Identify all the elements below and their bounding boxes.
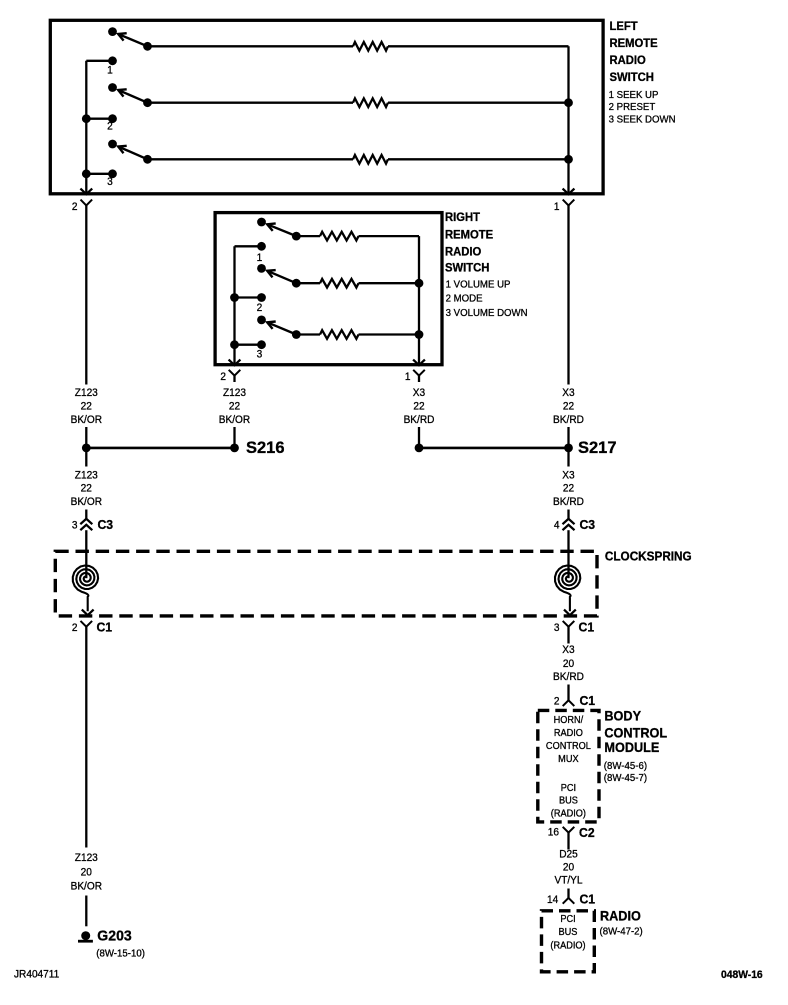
svg-text:PCI: PCI [561, 783, 576, 794]
svg-text:2: 2 [220, 371, 226, 383]
svg-text:22: 22 [81, 400, 92, 412]
wire: column A to splice [85, 427, 87, 448]
splice S216 [82, 439, 285, 457]
label: LEFT REMOTE RADIO SWITCH [609, 20, 657, 84]
wire: left switch output bus (right side) [563, 46, 575, 194]
wire: column D above C3 [567, 510, 569, 520]
svg-text:1: 1 [107, 64, 113, 76]
connector C3 pin 4 (in-line) [554, 518, 595, 532]
svg-text:PCI: PCI [560, 914, 575, 925]
svg-text:22: 22 [563, 400, 574, 412]
svg-text:S217: S217 [578, 439, 617, 457]
resistor R3 [148, 155, 569, 164]
svg-text:3: 3 [554, 622, 560, 634]
svg-text:20: 20 [563, 861, 574, 873]
svg-text:(RADIO): (RADIO) [550, 940, 585, 951]
svg-text:MUX: MUX [558, 753, 579, 764]
svg-text:Z123: Z123 [75, 387, 98, 399]
wire: to radio connector [567, 889, 569, 898]
box: CLOCKSPRING (dashed) [55, 551, 597, 616]
label: RIGHT REMOTE RADIO SWITCH [445, 211, 493, 275]
box: RIGHT REMOTE RADIO SWITCH [215, 213, 442, 365]
svg-text:BK/RD: BK/RD [404, 414, 435, 426]
wire label X3 22 BK/RD [553, 387, 584, 426]
svg-text:BK/RD: BK/RD [553, 496, 584, 508]
node: terminal 3 of right switch [230, 340, 266, 360]
wire: column D from pin 1 down [567, 205, 569, 384]
svg-text:2: 2 [107, 120, 113, 132]
svg-text:4: 4 [554, 519, 560, 531]
svg-text:VT/YL: VT/YL [554, 874, 582, 886]
junction dots on left switch output bus [564, 98, 573, 163]
resistor R4 [296, 232, 419, 241]
svg-text:2: 2 [257, 302, 263, 314]
wire: column A above C3 [85, 510, 87, 520]
svg-text:22: 22 [413, 400, 424, 412]
connector Y: right switch pin 2 [220, 370, 240, 384]
svg-text:Z123: Z123 [223, 387, 246, 399]
svg-text:22: 22 [81, 482, 92, 494]
svg-text:RADIO: RADIO [445, 245, 481, 258]
svg-text:C1: C1 [96, 620, 112, 634]
svg-text:1 VOLUME UP: 1 VOLUME UP [446, 279, 511, 290]
wire: column A to G203 [85, 896, 87, 927]
connector Y: left switch pin 2 [72, 200, 92, 213]
junction dots on right switch output bus [415, 279, 424, 339]
switch SW5 (mode) [257, 264, 301, 288]
svg-text:048W-16: 048W-16 [721, 969, 763, 981]
wire: column B to splice [233, 427, 235, 448]
svg-text:Z123: Z123 [75, 469, 98, 481]
connector Y: clockspring C1 pin 3 [554, 620, 594, 634]
svg-text:3 VOLUME DOWN: 3 VOLUME DOWN [446, 307, 528, 318]
clockspring coil (right) [555, 566, 580, 616]
svg-text:HORN/: HORN/ [554, 715, 584, 726]
svg-text:C1: C1 [580, 694, 596, 708]
svg-text:1: 1 [554, 200, 560, 212]
node: terminal 1 of left switch [86, 56, 117, 76]
svg-text:REMOTE: REMOTE [445, 228, 493, 241]
svg-text:BUS: BUS [559, 927, 578, 938]
svg-text:BK/OR: BK/OR [71, 880, 103, 892]
connector Y: BCM C2 pin 16 [548, 826, 595, 840]
svg-text:20: 20 [563, 657, 574, 669]
svg-text:X3: X3 [413, 387, 425, 399]
svg-text:2: 2 [554, 695, 560, 707]
svg-text:C1: C1 [579, 620, 595, 634]
label inside BCM: HORN/RADIO CONTROL MUX [546, 715, 592, 765]
connector C3 pin 3 (in-line) [72, 518, 113, 532]
svg-text:22: 22 [229, 400, 240, 412]
connector Y: clockspring C1 pin 2 [72, 620, 112, 634]
wire label Z123 22 BK/OR [71, 387, 103, 426]
svg-text:CLOCKSPRING: CLOCKSPRING [605, 549, 692, 563]
wire: column B stub [233, 376, 235, 382]
box: RADIO (dashed) [542, 911, 595, 972]
legend: 1 SEEK UP / 2 PRESET / 3 SEEK DOWN [609, 90, 676, 126]
svg-text:SWITCH: SWITCH [445, 261, 489, 274]
box: BODY CONTROL MODULE (dashed) [538, 710, 599, 822]
switch SW6 (volume down) [257, 316, 301, 339]
svg-text:CONTROL: CONTROL [604, 725, 667, 740]
switch SW1 (seek up) [108, 27, 152, 50]
svg-text:JR404711: JR404711 [14, 968, 59, 980]
connector C1 pin 2 at BCM (inverted Y) [554, 694, 595, 708]
wire label X3 22 BK/RD [553, 469, 584, 508]
resistor R2 [148, 98, 569, 107]
svg-text:C3: C3 [580, 518, 596, 532]
svg-text:C2: C2 [579, 826, 595, 840]
label: RADIO (8W-47-2) [600, 908, 643, 938]
svg-text:LEFT: LEFT [609, 20, 637, 33]
wire label X3 22 BK/RD [404, 387, 435, 426]
resistor R1 [148, 42, 569, 51]
svg-text:MODULE: MODULE [604, 740, 659, 755]
ground G203 [78, 928, 145, 959]
svg-text:G203: G203 [97, 928, 131, 944]
svg-text:RADIO: RADIO [609, 54, 645, 67]
wire label Z123 20 BK/OR [71, 852, 103, 893]
label: (8W-45-6) (8W-45-7) [604, 761, 647, 784]
svg-text:X3: X3 [562, 644, 574, 656]
svg-text:2: 2 [72, 200, 78, 212]
svg-text:14: 14 [547, 894, 558, 906]
resistor R6 [296, 330, 419, 339]
svg-text:16: 16 [548, 826, 559, 838]
svg-text:BK/RD: BK/RD [553, 414, 584, 426]
svg-text:3: 3 [72, 519, 78, 531]
svg-text:1: 1 [257, 252, 263, 264]
wire: column D below clockspring [567, 627, 569, 644]
svg-text:X3: X3 [562, 387, 574, 399]
svg-text:(RADIO): (RADIO) [551, 808, 586, 819]
wire: column A from pin 2 down [85, 205, 87, 384]
wire: column D to splice [567, 427, 569, 448]
legend: 1 VOLUME UP / 2 MODE / 3 VOLUME DOWN [446, 279, 528, 319]
node: terminal 1 of right switch [235, 242, 266, 264]
svg-text:C1: C1 [580, 892, 596, 906]
wire: column C stub [418, 376, 420, 382]
svg-text:BUS: BUS [559, 795, 578, 806]
svg-text:3: 3 [257, 348, 263, 360]
wire label D25 20 VT/YL [554, 848, 582, 886]
svg-text:D25: D25 [559, 848, 578, 860]
svg-text:2: 2 [72, 622, 78, 634]
svg-text:CONTROL: CONTROL [546, 741, 592, 752]
connector C1 pin 14 at radio (inverted Y) [547, 892, 595, 906]
svg-text:BK/OR: BK/OR [219, 414, 251, 426]
svg-text:(8W-45-6): (8W-45-6) [604, 761, 647, 772]
svg-text:X3: X3 [562, 469, 574, 481]
wire: column D to BCM connector [567, 685, 569, 701]
label inside RADIO: PCI BUS (RADIO) [550, 914, 585, 952]
node: terminal 2 of right switch [230, 293, 266, 314]
wire label X3 20 BK/RD [553, 644, 584, 683]
label: BODY CONTROL MODULE [604, 708, 667, 755]
resistor R5 [296, 279, 419, 288]
connector Y: right switch pin 1 [405, 370, 425, 384]
svg-text:C3: C3 [98, 518, 114, 532]
svg-text:BK/RD: BK/RD [553, 671, 584, 683]
svg-text:BODY: BODY [604, 708, 641, 723]
wire: column A into clockspring [85, 530, 87, 578]
svg-text:SWITCH: SWITCH [609, 71, 653, 84]
node: terminal 3 of left switch [82, 169, 117, 188]
svg-text:BK/OR: BK/OR [71, 496, 103, 508]
svg-text:20: 20 [81, 866, 92, 878]
svg-text:RIGHT: RIGHT [445, 211, 480, 224]
svg-text:(8W-45-7): (8W-45-7) [604, 773, 647, 784]
wire: left switch common bus [80, 61, 92, 194]
svg-text:1 SEEK UP: 1 SEEK UP [609, 90, 659, 101]
wire: below S217 [567, 452, 569, 467]
wire: column C to splice [418, 427, 420, 448]
svg-text:RADIO: RADIO [600, 908, 641, 923]
svg-text:RADIO: RADIO [554, 728, 583, 739]
svg-text:22: 22 [563, 482, 574, 494]
wire: column D into clockspring [567, 530, 569, 578]
connector Y: left switch pin 1 [554, 200, 574, 213]
wire: below S216 [85, 452, 87, 467]
svg-text:BK/OR: BK/OR [71, 414, 103, 426]
clockspring coil (left) [73, 566, 98, 616]
wire: column A long run to ground [85, 627, 87, 848]
svg-text:3 SEEK DOWN: 3 SEEK DOWN [609, 114, 676, 125]
svg-text:REMOTE: REMOTE [609, 37, 657, 50]
svg-text:2 MODE: 2 MODE [446, 293, 483, 304]
svg-text:2 PRESET: 2 PRESET [609, 102, 656, 113]
wire: right switch common bus [229, 246, 241, 365]
switch SW4 (volume up) [257, 218, 301, 241]
switch SW3 (seek down) [108, 140, 152, 164]
svg-text:(8W-15-10): (8W-15-10) [96, 948, 145, 959]
node: terminal 2 of left switch [82, 114, 117, 132]
splice S217 [415, 439, 617, 457]
wire: right switch output bus [413, 236, 425, 365]
svg-text:1: 1 [405, 371, 411, 383]
wire label Z123 22 BK/OR [219, 387, 251, 426]
switch SW2 (preset) [108, 83, 152, 107]
svg-text:S216: S216 [246, 439, 285, 457]
svg-text:Z123: Z123 [75, 852, 98, 864]
label inside BCM: PCI BUS (RADIO) [551, 783, 586, 820]
svg-text:3: 3 [107, 176, 113, 188]
wire label Z123 22 BK/OR [71, 469, 103, 508]
box: LEFT REMOTE RADIO SWITCH [50, 20, 603, 194]
svg-text:(8W-47-2): (8W-47-2) [600, 926, 643, 937]
wire: BCM C2 to label [567, 833, 569, 850]
